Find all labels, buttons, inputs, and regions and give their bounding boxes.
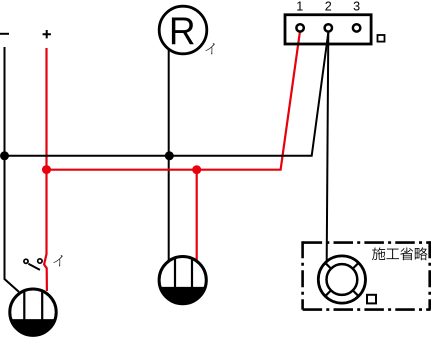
wire: red horizontal bus at y=170 rising to terminal 1 xyxy=(47,33,300,170)
wire: red drop from red bus to middle lamp receptacle xyxy=(196,170,198,261)
junction dot: black bus / lamp R drop xyxy=(165,151,174,160)
pin 3 xyxy=(353,24,360,31)
svg-text:2: 2 xyxy=(325,0,332,14)
junction dot: red bus / middle lamp drop xyxy=(192,165,201,174)
svg-text:1: 1 xyxy=(296,0,303,14)
wire: black horizontal bus at y=155 rising to terminal 2 xyxy=(5,33,329,156)
square marker beside terminal block xyxy=(378,35,385,42)
wire: red positive feed from plus terminal down through switch to left lamp receptacle xyxy=(44,48,47,291)
junction dot: red bus / positive feed xyxy=(42,165,51,174)
label イ for lamp R xyxy=(205,43,214,54)
pin 2 xyxy=(325,24,332,31)
label イ for switch xyxy=(53,255,62,266)
lamp receptacle (middle) xyxy=(159,257,206,304)
label 施工省略 xyxy=(372,247,385,260)
construction-omitted dash-dot boundary box xyxy=(303,241,431,309)
switch イ (single-pole) xyxy=(24,259,42,270)
plus terminal label xyxy=(43,30,51,38)
minus terminal label xyxy=(0,33,9,35)
lamp R (round lamp, circuit イ) xyxy=(159,6,207,54)
wire: black drop from lamp R to middle lamp receptacle xyxy=(168,49,170,261)
svg-text:R: R xyxy=(169,10,196,53)
junction dot: black bus / negative feed xyxy=(0,151,9,160)
svg-text:3: 3 xyxy=(353,0,360,14)
pin 1 xyxy=(296,24,303,31)
terminal block (3P blade connector) xyxy=(285,15,371,44)
wire: black negative feed from minus terminal down to switch area and left lamp receptacle xyxy=(5,47,19,292)
square marker beside outlet xyxy=(367,295,376,304)
ceiling outlet (double circle with spokes) inside omitted area xyxy=(318,256,365,303)
wire: black drop from terminal 2 to outlet in omitted area xyxy=(327,33,329,262)
lamp receptacle (left, イ) xyxy=(10,289,56,335)
